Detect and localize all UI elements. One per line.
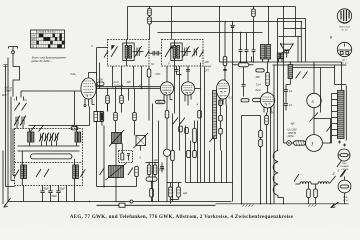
switch stub right of T1 [145, 51, 149, 58]
plus marks under choke [338, 141, 346, 147]
svg-text:Widerstand: Widerstand [339, 25, 351, 28]
resistor R2 [252, 7, 256, 50]
svg-text:2N: 2N [156, 101, 160, 104]
bottom second bus [97, 204, 216, 206]
dial lamp L1 [338, 149, 350, 161]
svg-text:10V: 10V [127, 81, 132, 84]
svg-text:50pF: 50pF [52, 196, 58, 198]
svg-text:MHF: MHF [343, 197, 348, 199]
tube socket diagram S2 [337, 42, 351, 56]
osc wires [97, 126, 137, 202]
right area verticals [278, 7, 306, 151]
resistor R12 [150, 181, 154, 201]
switch arrows mid [173, 118, 186, 125]
tube E (CL4 output) [260, 93, 274, 113]
tube B (CB/hexode) [160, 82, 200, 106]
tuning capacitor block osc [109, 130, 124, 147]
node [74, 91, 76, 126]
svg-text:6mA: 6mA [256, 89, 261, 92]
bottom main bus [8, 201, 232, 203]
wire long vertical [232, 33, 234, 202]
bottom right coils [296, 182, 330, 184]
resistor below tube E [265, 112, 275, 204]
labels mid bottom [140, 157, 188, 196]
svg-text:MW: MW [31, 38, 36, 41]
inner dashed divider [15, 162, 83, 164]
switch stub left of T1 [104, 51, 108, 58]
loudspeaker [279, 43, 294, 58]
wire [251, 57, 253, 63]
svg-text:10μF: 10μF [159, 169, 165, 172]
wire [320, 68, 322, 113]
resistor R8 [135, 167, 139, 187]
wires lower box [22, 151, 74, 202]
junction dots on buses [42, 201, 284, 205]
tube F2 (rectifier CY) [306, 135, 323, 152]
svg-text:BU3426: BU3426 [341, 165, 350, 168]
T2 tuning arrow [165, 47, 172, 58]
T2 leads [167, 40, 188, 114]
mains cord wires [261, 108, 287, 204]
svg-text:1 2 3 4 5 6 7 8 9 0 1 2: 1 2 3 4 5 6 7 8 9 0 1 2 [37, 31, 56, 34]
T2 inner shield box [171, 43, 182, 61]
svg-text:AZ 1: AZ 1 [341, 59, 347, 62]
resistor R1 stack [148, 7, 152, 40]
svg-text:22V: 22V [269, 112, 275, 115]
svg-text:2μF: 2μF [182, 192, 188, 195]
T1 leads [113, 40, 142, 89]
third top bus [158, 32, 263, 34]
svg-text:~10V: ~10V [97, 78, 103, 82]
svg-text:1μF: 1μF [154, 159, 159, 162]
wire [273, 65, 275, 204]
tube C (CF7) [181, 82, 194, 106]
resistor R9 [165, 106, 169, 150]
svg-text:NSF: NSF [342, 163, 347, 165]
resistor R7 [133, 89, 137, 136]
HT bus 2 [273, 64, 347, 66]
field coil [286, 62, 293, 85]
svg-text:CH1: CH1 [156, 73, 162, 76]
labels right of T2 [151, 61, 233, 107]
label KW 200pF [2, 87, 12, 98]
wire [335, 84, 347, 86]
terminal circle on bus [130, 200, 133, 203]
phone jack circle [163, 149, 170, 201]
long pill resistor in box [31, 154, 73, 159]
svg-text:N: N [161, 101, 163, 105]
svg-text:30V: 30V [256, 76, 261, 79]
svg-text:4μF: 4μF [291, 123, 296, 126]
capacitor on left bus [3, 64, 7, 66]
svg-text:40pF: 40pF [44, 188, 50, 191]
potentiometer ladder [210, 91, 217, 151]
wire [127, 7, 129, 40]
loop antenna coil [273, 151, 283, 204]
svg-text:CL4: CL4 [256, 84, 261, 87]
electrolytic cap 10uF [160, 163, 164, 173]
switch arrows bottom right [294, 161, 346, 184]
left step wires [3, 65, 15, 205]
small dashed box osc [119, 144, 133, 163]
grid wire to tube A [21, 90, 81, 92]
dial lamp L2 [338, 177, 351, 204]
second top bus [151, 21, 302, 23]
labels tube E [256, 76, 262, 92]
wire [219, 7, 221, 22]
output transformer [277, 53, 283, 62]
middle vertical forest [129, 63, 233, 202]
fuse box on bus [119, 203, 125, 207]
power choke autotransformer [338, 62, 347, 141]
horizontal pill resistor [146, 177, 157, 181]
main HT bus [220, 61, 342, 63]
wire [107, 104, 109, 112]
switch stub right of T2 [200, 51, 204, 58]
band switch table [31, 30, 65, 48]
resistor R11 [171, 151, 175, 202]
capacitors under filter box [40, 188, 65, 202]
wire [314, 119, 331, 144]
L2 labels [342, 197, 349, 202]
svg-text:20V: 20V [204, 61, 210, 64]
T1 tuning arrow [111, 47, 118, 58]
tube D (CB2 demod) [216, 80, 229, 105]
resistor R6 [114, 87, 118, 133]
IF transformer T2 dashed box [162, 40, 204, 67]
svg-text:2: 2 [337, 169, 340, 173]
svg-text:220V~: 220V~ [287, 135, 296, 138]
HT bus 3 [291, 67, 335, 69]
resistor R3 [106, 89, 110, 112]
plate lead to T1 [91, 45, 108, 89]
svg-text:2V W: 2V W [342, 200, 349, 202]
tube F1 (barretter) [307, 62, 321, 135]
capacitor row mid-top [239, 33, 256, 63]
resistor R5 above tube E [266, 63, 270, 93]
small resistors right of jack [187, 151, 197, 158]
T1 coil pair [125, 46, 131, 59]
wire [29, 125, 90, 127]
wires in box [18, 129, 80, 152]
ground arrow [4, 198, 11, 207]
antenna terminal [9, 47, 18, 67]
switch row under y125 [31, 125, 79, 132]
junction dots plate wire [107, 86, 143, 89]
coil pair bottom left in box [21, 165, 27, 179]
S1 labels [339, 25, 351, 31]
T1 trimmer [133, 46, 144, 57]
top supply bus [128, 6, 296, 8]
T2 trimmer [181, 46, 192, 57]
wire [224, 22, 226, 57]
resistor above tube D [223, 57, 227, 81]
junction dots [240, 21, 302, 63]
svg-text:Nr. 1a: Nr. 1a [342, 63, 349, 65]
left bus wire [7, 58, 9, 202]
switch arrow between [310, 113, 319, 122]
tube A (CH1) [81, 73, 97, 126]
resistor R10 [198, 111, 202, 119]
svg-text:Strom- und Spannungswerte: Strom- und Spannungswerte [32, 56, 67, 60]
pill label 2N [156, 100, 166, 104]
switch arrows osc [100, 168, 134, 176]
padder capacitor box [134, 133, 149, 151]
output transformer [261, 7, 271, 63]
svg-text:C/A₁: C/A₁ [71, 72, 77, 76]
resistors right of ladder [219, 100, 223, 151]
capacitor 0.1uF upper [284, 85, 288, 104]
grid stopper pill [97, 82, 104, 86]
plate wire lower [97, 88, 161, 90]
label mains voltages [287, 129, 298, 138]
resistor pair mid-bottom [146, 163, 159, 178]
svg-text:200pF: 200pF [4, 90, 13, 93]
coil pair bottom right in box [73, 165, 85, 179]
barretter pill resistor [294, 141, 306, 145]
T2 coil pair [173, 46, 179, 59]
wire [334, 65, 336, 85]
switch arrow near L1 [340, 170, 345, 177]
pill label E200 [253, 98, 261, 101]
IF transformer T1 dashed box [108, 40, 150, 67]
T2 second trimmer [192, 47, 199, 57]
wire [96, 73, 98, 89]
chassis ground hatches [243, 204, 317, 207]
svg-text:MW: MW [2, 94, 7, 97]
resistor network tube E top [233, 63, 265, 97]
resistor pair right-mid [242, 116, 263, 204]
check arrow bottom right [331, 202, 339, 208]
labels on plate wire [113, 81, 142, 87]
svg-text:50pF: 50pF [60, 189, 66, 191]
small resistors mid [179, 121, 197, 151]
bottom-left dashed band filter box [15, 129, 83, 186]
osc coil hatched [106, 163, 127, 180]
plate wire tube A to tube B [96, 86, 160, 88]
svg-text:AEG, 77 GWK, und Telefunken, 7: AEG, 77 GWK, und Telefunken, 776 GWK, Al… [70, 215, 294, 220]
S2 labels [341, 59, 348, 65]
coupling caps between T1 T2 [149, 51, 162, 56]
resistor pair below tube A [94, 85, 104, 187]
coil pair top left in box [28, 132, 34, 142]
resistor pair bottom 2uF [167, 183, 182, 204]
right chassis bus [216, 203, 349, 205]
L1 labels [341, 163, 350, 171]
svg-text:CF7: CF7 [205, 69, 210, 72]
resistor lamps dropper pair [307, 184, 318, 204]
resistor R4 [120, 89, 124, 113]
choke taps [323, 94, 338, 144]
capacitor C top middle [230, 22, 234, 33]
switch arrows right of field coil [296, 72, 308, 79]
tube socket diagram S1 [337, 9, 351, 23]
trimmer capacitors left [14, 116, 26, 129]
svg-text:0,1: 0,1 [229, 97, 233, 100]
T1 inner shield box [123, 43, 134, 61]
switch S7 [14, 97, 28, 111]
wire jog [13, 67, 20, 97]
coil top right in box [75, 132, 81, 142]
pill label 2 [241, 99, 249, 102]
capacitor 0.1uF lower [284, 104, 288, 111]
trimmer caps in box [39, 133, 59, 142]
wire [219, 22, 221, 63]
note text under table [32, 56, 67, 63]
wire [171, 7, 173, 40]
svg-text:Nr. 16: Nr. 16 [342, 29, 349, 31]
svg-text:gelten für 220V ~: gelten für 220V ~ [32, 59, 53, 63]
switch arrows bottom in box [15, 169, 50, 177]
mains terminal [287, 141, 294, 146]
caps below T2 [175, 66, 191, 82]
svg-text:Tw: Tw [151, 63, 154, 66]
junction dots top bus [149, 6, 285, 34]
svg-text:TA: TA [31, 45, 34, 48]
